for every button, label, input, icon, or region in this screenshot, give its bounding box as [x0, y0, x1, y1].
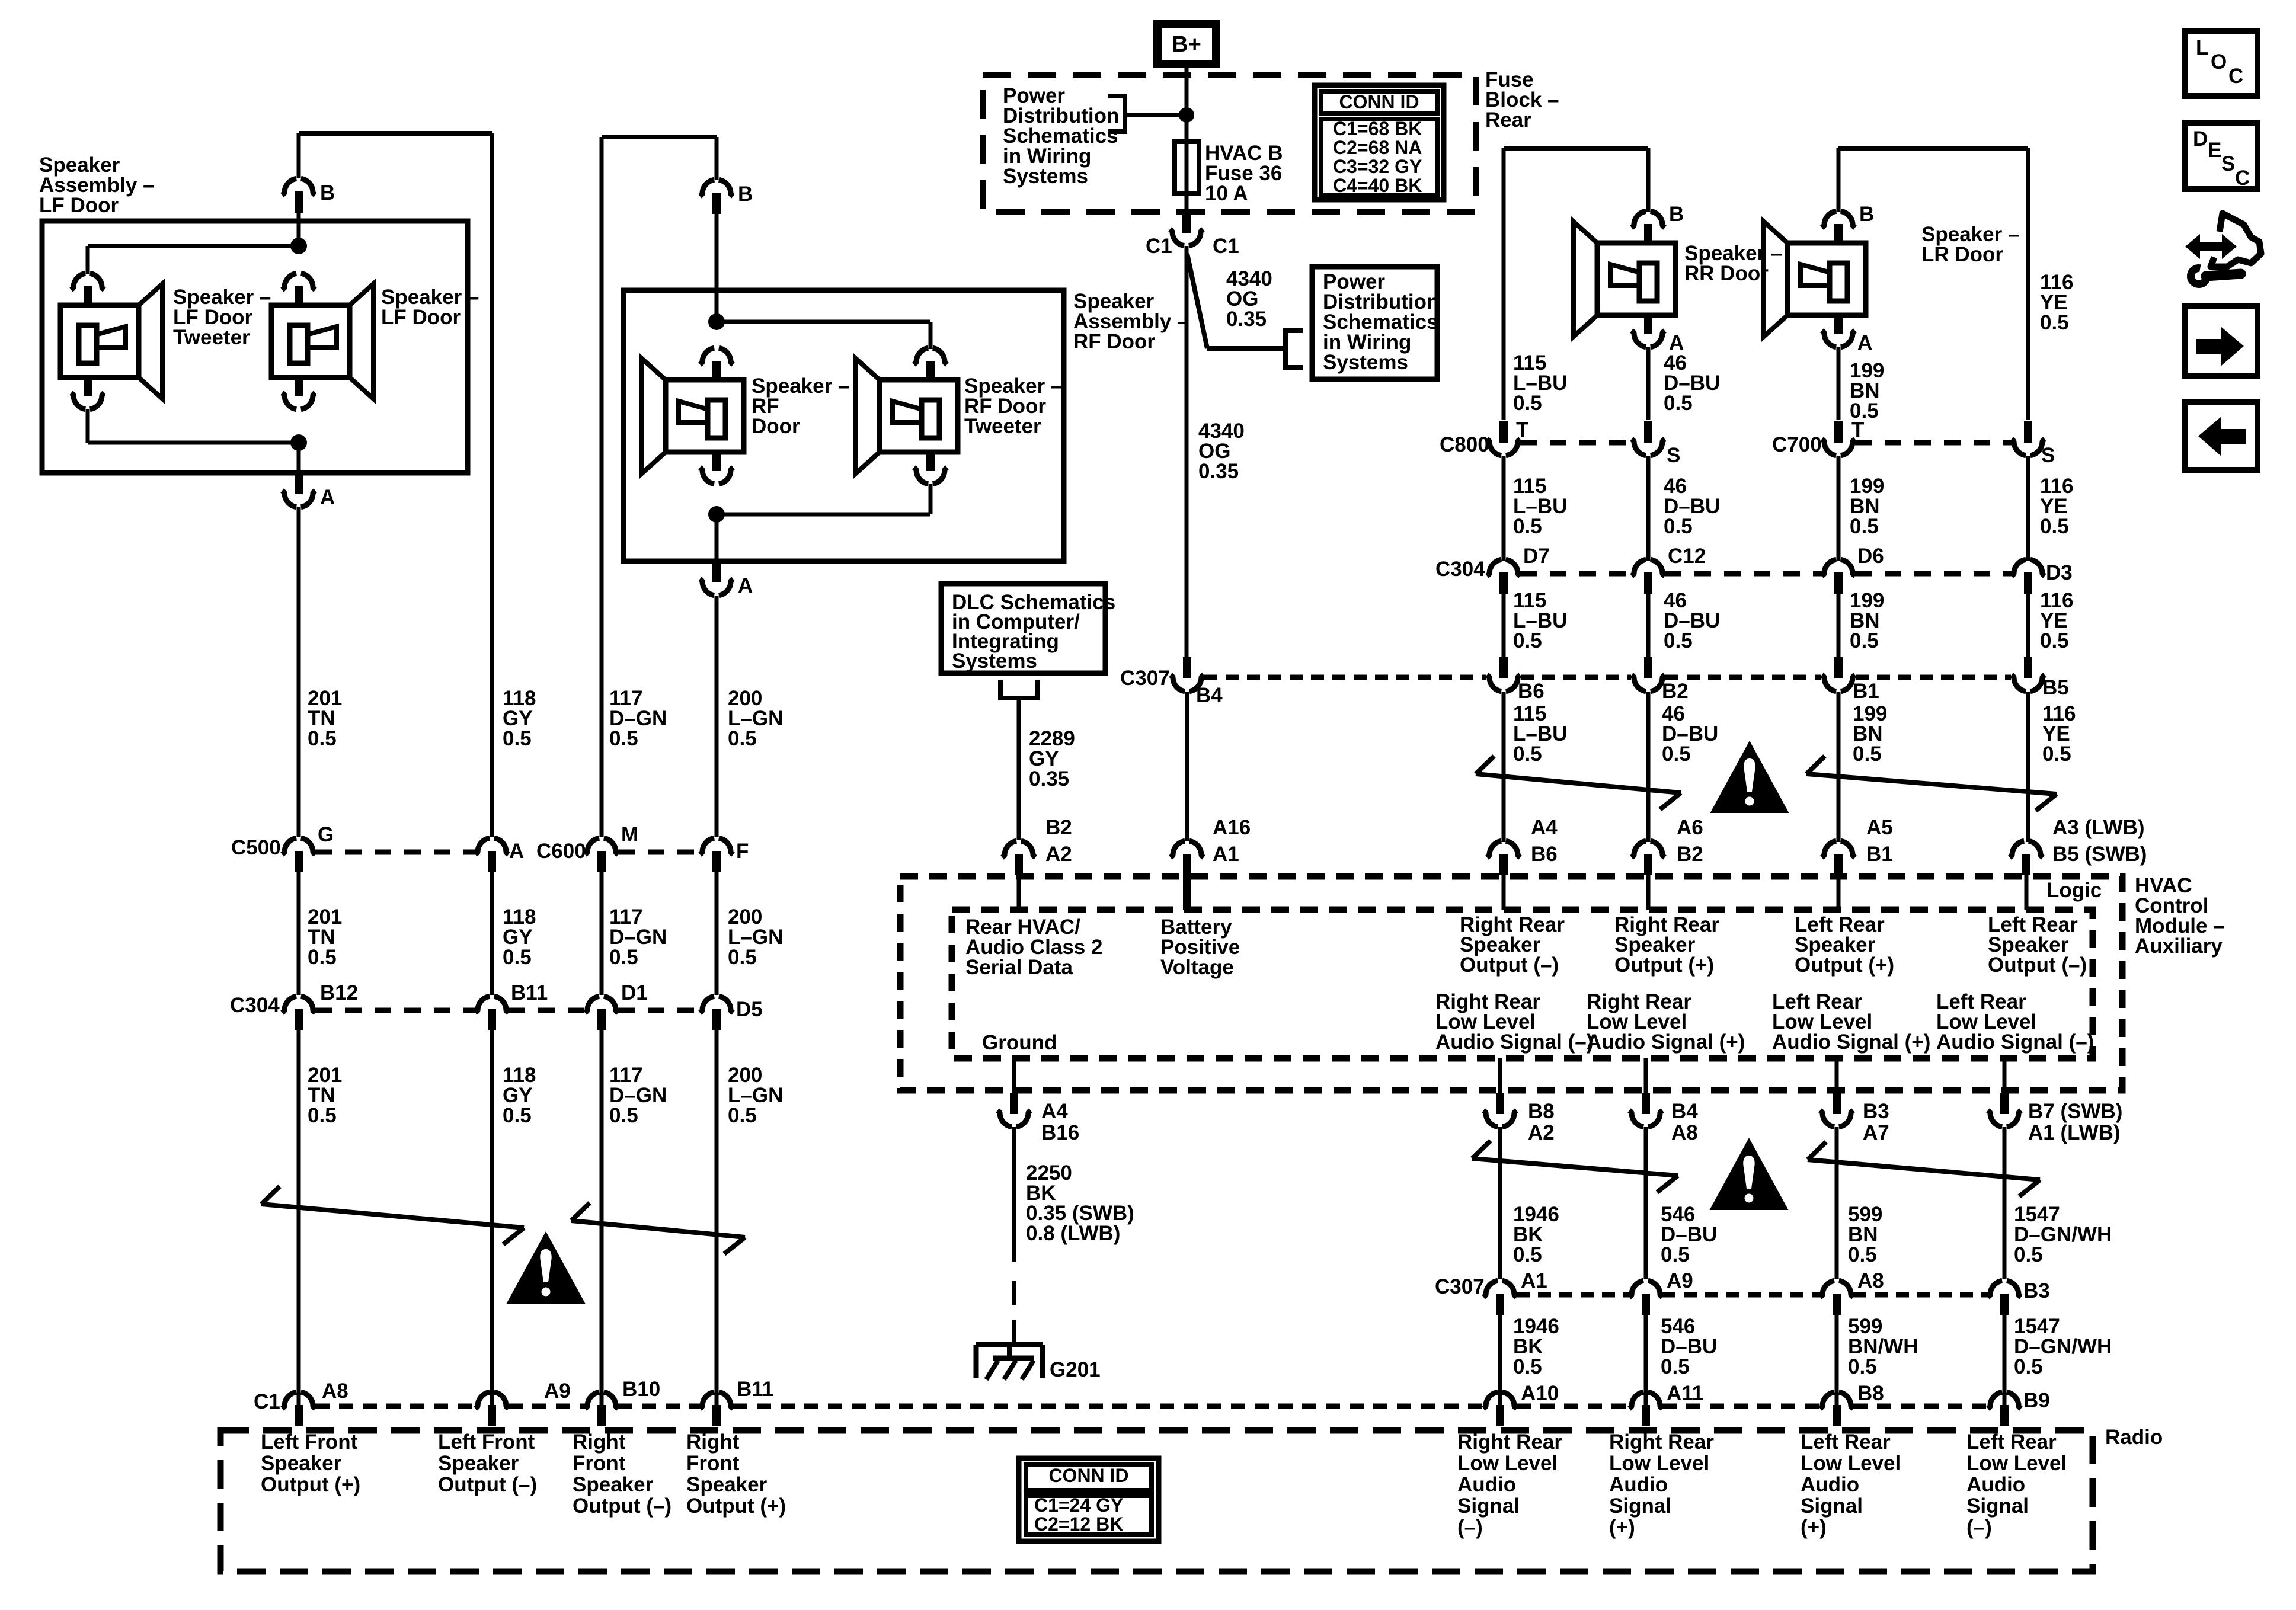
svg-text:Systems: Systems — [1003, 165, 1088, 188]
wire 116 YE segment 3 — [2026, 594, 2030, 657]
warning triangle left — [507, 1231, 586, 1304]
connector B3/A7 out — [1835, 1058, 1839, 1094]
svg-text:Logic: Logic — [2046, 879, 2102, 902]
wire ground dashed segments — [1012, 1281, 1016, 1305]
svg-text:CONN ID: CONN ID — [1048, 1465, 1128, 1486]
svg-text:C600: C600 — [536, 840, 586, 863]
svg-text:A2: A2 — [1045, 843, 1072, 866]
wire 199 BN segment 1 — [1837, 347, 1841, 420]
wire 1547 D-GN/WH segment 2 — [2003, 1315, 2007, 1405]
speaker assembly box - RF Door — [623, 290, 1064, 561]
svg-text:G201: G201 — [1050, 1358, 1101, 1381]
svg-text:B3: B3 — [1863, 1100, 1889, 1123]
svg-text:0.5: 0.5 — [1662, 742, 1691, 766]
svg-text:B2: B2 — [1045, 816, 1072, 839]
svg-text:A11: A11 — [1667, 1382, 1703, 1405]
svg-text:(+): (+) — [1609, 1516, 1635, 1539]
svg-text:A8: A8 — [1671, 1121, 1698, 1144]
wire 46 D-BU segment 4 — [1646, 692, 1651, 842]
connector B4/A8 out — [1644, 1058, 1648, 1094]
svg-text:C800: C800 — [1440, 433, 1489, 456]
svg-text:T: T — [1516, 418, 1528, 441]
connector B (RR speaker) — [1632, 211, 1646, 228]
svg-text:Signal: Signal — [1966, 1494, 2029, 1518]
wire 546 D-BU segment 1 — [1644, 1127, 1648, 1279]
svg-text:0.5: 0.5 — [1513, 742, 1542, 766]
svg-text:0.5: 0.5 — [308, 727, 337, 750]
svg-text:B: B — [1859, 203, 1874, 226]
wire 201 TN segment 2 — [297, 872, 301, 995]
svg-text:Output (–): Output (–) — [438, 1473, 537, 1496]
svg-text:B11: B11 — [737, 1378, 773, 1401]
svg-text:0.5: 0.5 — [308, 946, 337, 969]
svg-text:A4: A4 — [1041, 1100, 1068, 1123]
svg-text:0.5: 0.5 — [1850, 515, 1879, 538]
svg-text:C307: C307 — [1435, 1275, 1485, 1298]
svg-text:0.5: 0.5 — [1513, 1243, 1542, 1266]
svg-text:B4: B4 — [1196, 684, 1223, 707]
fuse HVAC B Fuse 36 10A — [1175, 142, 1199, 194]
svg-text:S: S — [1667, 444, 1680, 467]
wire 200 L-GN segment 1 — [715, 596, 719, 837]
svg-text:A: A — [509, 840, 524, 863]
svg-text:Left Front: Left Front — [261, 1430, 358, 1454]
svg-text:B6: B6 — [1531, 843, 1558, 866]
svg-text:B+: B+ — [1172, 32, 1201, 57]
svg-text:0.5: 0.5 — [503, 1104, 532, 1127]
svg-text:Signal: Signal — [1457, 1494, 1520, 1518]
wire 1946 BK segment 2 — [1498, 1315, 1502, 1405]
wire RR top jumper — [1504, 146, 1648, 151]
speaker assembly box - LF Door — [42, 221, 468, 473]
svg-text:A: A — [1857, 331, 1872, 354]
wire 46 D-BU segment 3 — [1646, 594, 1651, 657]
svg-text:Right: Right — [573, 1430, 626, 1454]
svg-text:0.35: 0.35 — [1226, 308, 1267, 331]
svg-text:(–): (–) — [1457, 1516, 1483, 1539]
svg-text:Low Level: Low Level — [1801, 1452, 1901, 1475]
conn id table (fuse block) — [1315, 85, 1444, 200]
svg-text:0.5: 0.5 — [1513, 392, 1542, 415]
DESC reference box — [2185, 123, 2257, 189]
connector B7/A1 out — [2003, 1058, 2007, 1094]
connector A (LF assembly) — [282, 491, 296, 507]
svg-text:B: B — [1669, 203, 1684, 226]
bracket below DLC box — [1000, 680, 1037, 698]
svg-text:RF Door: RF Door — [1073, 330, 1155, 353]
svg-text:Audio Signal (+): Audio Signal (+) — [1587, 1030, 1745, 1054]
power feed B+ box — [1153, 20, 1220, 68]
svg-text:0.5: 0.5 — [2014, 1355, 2043, 1378]
svg-text:B4: B4 — [1671, 1100, 1698, 1123]
wire 117 D-GN segment 2 — [600, 872, 604, 995]
wire 118 GY segment 3 — [490, 1030, 494, 1405]
svg-text:Speaker: Speaker — [438, 1452, 519, 1475]
conn id table (radio) — [1019, 1458, 1159, 1541]
svg-text:C700: C700 — [1772, 433, 1822, 456]
svg-text:C1: C1 — [1213, 235, 1239, 258]
speaker LF Door (main) — [282, 273, 296, 290]
svg-text:LF Door: LF Door — [381, 306, 461, 329]
label 118 GY segment 1 — [490, 133, 494, 837]
power distribution schematics box — [1312, 267, 1437, 379]
svg-text:0.5: 0.5 — [1848, 1355, 1877, 1378]
connector B (RF assembly) — [700, 180, 714, 196]
wire 115 L-BU segment 4 — [1502, 692, 1506, 842]
svg-text:CONN ID: CONN ID — [1339, 91, 1419, 113]
svg-text:A9: A9 — [544, 1379, 571, 1403]
ground symbol G201 — [976, 1342, 1043, 1347]
svg-text:0.5: 0.5 — [1664, 629, 1693, 652]
wire 201 TN segment 1 — [297, 507, 301, 837]
svg-text:A1 (LWB): A1 (LWB) — [2028, 1121, 2121, 1144]
svg-text:Serial Data: Serial Data — [965, 956, 1073, 979]
wire branch to power distribution (diagonal) — [1187, 254, 1207, 348]
wire B to junction — [297, 213, 301, 249]
svg-text:B: B — [320, 181, 335, 204]
svg-text:C500: C500 — [231, 836, 281, 859]
wire RF tweeter bottom branch — [929, 484, 933, 514]
node junction RF top — [708, 313, 725, 330]
svg-text:E: E — [2208, 139, 2221, 162]
svg-text:Audio Signal (+): Audio Signal (+) — [1772, 1030, 1930, 1054]
svg-text:LR Door: LR Door — [1921, 243, 2003, 266]
interrupt break symbol lower RR wires — [1472, 1158, 1678, 1176]
wire junction to bracket — [1125, 113, 1187, 117]
LOC reference box — [2185, 31, 2257, 96]
connector B (LR speaker) — [1822, 211, 1836, 228]
svg-text:B11: B11 — [511, 981, 548, 1004]
svg-text:Output (+): Output (+) — [261, 1473, 360, 1496]
wire B to junction RF — [715, 214, 719, 325]
svg-text:Signal: Signal — [1609, 1494, 1671, 1518]
svg-text:Signal: Signal — [1801, 1494, 1863, 1518]
svg-text:0.5: 0.5 — [728, 1104, 757, 1127]
svg-text:B8: B8 — [1528, 1100, 1555, 1123]
svg-text:0.5: 0.5 — [503, 946, 532, 969]
warning triangle lower — [1710, 1138, 1789, 1210]
svg-text:A8: A8 — [1857, 1269, 1884, 1292]
svg-text:Audio: Audio — [1966, 1473, 2025, 1496]
svg-text:Tweeter: Tweeter — [173, 326, 250, 349]
svg-text:Speaker: Speaker — [686, 1473, 768, 1496]
svg-text:A5: A5 — [1866, 816, 1893, 839]
svg-text:0.5: 0.5 — [1664, 392, 1693, 415]
svg-text:0.5: 0.5 — [2040, 515, 2069, 538]
svg-text:A16: A16 — [1213, 816, 1251, 839]
svg-text:C304: C304 — [1435, 558, 1485, 581]
svg-text:Right Rear: Right Rear — [1457, 1430, 1562, 1454]
wire 546 D-BU segment 2 — [1644, 1315, 1648, 1405]
svg-text:0.35: 0.35 — [1198, 460, 1239, 483]
svg-text:Systems: Systems — [1323, 351, 1408, 374]
interrupt break symbol lower LR wires — [1808, 1160, 2040, 1180]
wire 116 YE segment 4 — [2026, 692, 2030, 842]
svg-text:0.5: 0.5 — [2042, 742, 2071, 766]
svg-text:0.5: 0.5 — [1853, 742, 1882, 766]
node junction LF top — [290, 238, 307, 254]
svg-text:C1=24 GY: C1=24 GY — [1034, 1494, 1123, 1516]
connector A5/B1 into HVAC — [1822, 841, 1836, 857]
forward arrow box — [2185, 306, 2257, 376]
svg-text:Left Rear: Left Rear — [1966, 1430, 2057, 1454]
svg-text:Output (–): Output (–) — [1988, 953, 2087, 977]
svg-text:F: F — [736, 840, 749, 863]
svg-text:Audio Signal (–): Audio Signal (–) — [1435, 1030, 1593, 1054]
svg-text:Output (–): Output (–) — [573, 1494, 671, 1518]
node junction B+ branch — [1179, 107, 1194, 123]
wire 599 BN segment 1 — [1835, 1127, 1839, 1279]
svg-text:Front: Front — [686, 1452, 740, 1475]
svg-text:C1: C1 — [1146, 235, 1172, 258]
wire 199 BN segment 3 — [1837, 594, 1841, 657]
svg-text:0.5: 0.5 — [1848, 1243, 1877, 1266]
svg-text:Voltage: Voltage — [1160, 956, 1234, 979]
svg-text:B1: B1 — [1853, 680, 1879, 703]
svg-text:T: T — [1851, 418, 1864, 441]
wire battery positive 4340 OG — [1185, 246, 1189, 658]
svg-text:0.5: 0.5 — [1661, 1355, 1690, 1378]
svg-text:C: C — [2235, 167, 2250, 190]
svg-text:C12: C12 — [1668, 545, 1706, 568]
wire 117 D-GN segment 3 — [600, 1030, 604, 1405]
connector A4/B16 ground out — [1012, 1058, 1016, 1094]
svg-text:0.5: 0.5 — [503, 727, 532, 750]
wire 199 BN segment 4 — [1837, 692, 1841, 842]
svg-text:B7 (SWB): B7 (SWB) — [2028, 1100, 2122, 1123]
svg-text:Speaker: Speaker — [261, 1452, 342, 1475]
svg-text:C304: C304 — [230, 994, 280, 1017]
svg-text:B10: B10 — [622, 1378, 660, 1401]
svg-text:A6: A6 — [1677, 816, 1703, 839]
warning triangle right upper — [1710, 741, 1789, 813]
bracket to power distribution schematics — [1108, 96, 1125, 132]
svg-text:Low Level: Low Level — [1457, 1452, 1558, 1475]
connector B (LF assembly) — [282, 178, 296, 195]
svg-text:A4: A4 — [1531, 816, 1558, 839]
svg-text:A8: A8 — [322, 1379, 348, 1403]
svg-text:C307: C307 — [1120, 667, 1170, 690]
svg-text:0.5: 0.5 — [728, 727, 757, 750]
svg-text:0.35: 0.35 — [1029, 767, 1069, 790]
svg-text:B3: B3 — [2023, 1279, 2050, 1302]
wire tweeter top branch — [88, 244, 299, 248]
connector A3/B5 into HVAC — [2010, 841, 2024, 857]
node junction LF bottom — [290, 434, 307, 451]
svg-text:Audio: Audio — [1801, 1473, 1859, 1496]
svg-text:B1: B1 — [1866, 843, 1893, 866]
svg-text:A: A — [738, 574, 753, 597]
svg-text:B12: B12 — [320, 981, 358, 1004]
dotted line C307 row — [1204, 675, 1486, 680]
svg-text:Low Level: Low Level — [1609, 1452, 1709, 1475]
interrupt break symbol right wires LR — [1806, 774, 2057, 794]
jump icon outline — [2211, 213, 2261, 267]
svg-text:0.5: 0.5 — [609, 946, 638, 969]
svg-text:0.5: 0.5 — [609, 727, 638, 750]
wire to RF box bottom — [715, 514, 719, 561]
svg-text:0.5: 0.5 — [1513, 629, 1542, 652]
wire RF top jumper — [602, 135, 717, 139]
wire 199 BN segment 2 — [1837, 456, 1841, 561]
back arrow box — [2185, 402, 2257, 470]
wire 200 L-GN segment 3 — [715, 1030, 719, 1405]
svg-text:B9: B9 — [2023, 1389, 2050, 1412]
svg-text:0.8 (LWB): 0.8 (LWB) — [1026, 1222, 1120, 1245]
HVAC control module outer dashed box — [900, 876, 2122, 1090]
svg-text:O: O — [2211, 50, 2227, 73]
svg-text:M: M — [621, 823, 638, 846]
fuse block rear dashed box — [983, 75, 1476, 212]
svg-text:0.5: 0.5 — [1850, 629, 1879, 652]
svg-text:Radio: Radio — [2105, 1426, 2163, 1449]
wire RF tweeter top branch — [717, 320, 930, 324]
svg-text:Left Rear: Left Rear — [1801, 1430, 1891, 1454]
svg-text:C2=12 BK: C2=12 BK — [1034, 1513, 1123, 1535]
svg-text:C: C — [2228, 65, 2243, 88]
connector B2/A2 into HVAC — [1002, 841, 1016, 857]
svg-text:10 A: 10 A — [1205, 182, 1248, 205]
wire 1946 BK segment 1 — [1498, 1127, 1502, 1279]
svg-text:Audio Signal (–): Audio Signal (–) — [1936, 1030, 2094, 1054]
wire 599 BN/WH segment 2 — [1835, 1315, 1839, 1405]
connector C307 B4 — [1171, 675, 1185, 692]
svg-text:Left Front: Left Front — [438, 1430, 535, 1454]
bracket to power distribution box — [1285, 331, 1303, 367]
interrupt break symbol right wires RR — [1476, 774, 1681, 793]
svg-text:A1: A1 — [1213, 843, 1239, 866]
wire LR top jumper — [1838, 146, 2028, 151]
svg-text:B6: B6 — [1518, 680, 1544, 703]
wire 1547 D-GN/WH segment 1 — [2003, 1127, 2007, 1279]
svg-text:0.5: 0.5 — [609, 1104, 638, 1127]
wire B+ to fuse — [1185, 68, 1189, 143]
svg-text:D5: D5 — [736, 998, 763, 1021]
svg-text:0.5: 0.5 — [2014, 1243, 2043, 1266]
interrupt break symbol left wires 1-2 — [261, 1204, 524, 1228]
svg-text:LF Door: LF Door — [39, 194, 119, 217]
svg-text:(–): (–) — [1966, 1516, 1992, 1539]
svg-text:A1: A1 — [1521, 1269, 1547, 1292]
jump icon wrench — [2191, 268, 2207, 284]
svg-text:Right Rear: Right Rear — [1609, 1430, 1714, 1454]
svg-text:A7: A7 — [1863, 1121, 1889, 1144]
svg-text:D3: D3 — [2046, 561, 2073, 584]
connector A4/B6 into HVAC — [1487, 841, 1501, 857]
speaker RR Door — [1632, 211, 1646, 228]
wire ground 2250 BK — [1012, 1127, 1016, 1262]
svg-text:D: D — [2193, 127, 2208, 151]
svg-text:Ground: Ground — [982, 1031, 1057, 1054]
svg-text:Audio: Audio — [1609, 1473, 1668, 1496]
svg-text:A: A — [320, 486, 335, 509]
svg-text:L: L — [2196, 36, 2208, 59]
wire 46 D-BU segment 1 — [1646, 347, 1651, 420]
wire battery to HVAC module — [1185, 692, 1189, 841]
svg-text:B2: B2 — [1662, 680, 1689, 703]
svg-text:S: S — [2041, 444, 2055, 467]
svg-text:A2: A2 — [1528, 1121, 1555, 1144]
svg-text:(+): (+) — [1801, 1516, 1827, 1539]
svg-text:C3=32 GY: C3=32 GY — [1333, 156, 1422, 177]
wire to box bottom — [297, 443, 301, 473]
svg-text:A3 (LWB): A3 (LWB) — [2052, 816, 2145, 839]
svg-text:C2=68 NA: C2=68 NA — [1333, 137, 1422, 158]
svg-text:Door: Door — [752, 415, 800, 438]
svg-text:B8: B8 — [1857, 1382, 1884, 1405]
wire tweeter bottom branch — [86, 409, 90, 443]
jump icon double arrow — [2185, 234, 2237, 259]
svg-text:Output (–): Output (–) — [1460, 953, 1559, 977]
connector C1 (fuse block) — [1170, 229, 1184, 246]
svg-text:D6: D6 — [1857, 545, 1884, 568]
svg-text:0.5: 0.5 — [2040, 311, 2069, 334]
svg-text:Output (+): Output (+) — [1795, 953, 1894, 977]
speaker RF Door (main) — [700, 348, 714, 364]
HVAC control module inner dashed box (logic) — [952, 910, 2093, 1058]
svg-text:Auxiliary: Auxiliary — [2135, 934, 2223, 958]
svg-text:D7: D7 — [1523, 545, 1550, 568]
wire 116 YE segment 2 — [2026, 456, 2030, 561]
wire LF top jumper — [299, 131, 492, 136]
connector B8/A2 out — [1498, 1058, 1502, 1094]
interrupt break symbol left wires 3-4 — [571, 1221, 745, 1237]
svg-text:A10: A10 — [1521, 1382, 1559, 1405]
connector A6/B2 into HVAC — [1632, 841, 1646, 857]
node junction RF bottom — [708, 506, 725, 523]
svg-text:0.5: 0.5 — [2040, 629, 2069, 652]
svg-text:0.5: 0.5 — [1513, 515, 1542, 538]
svg-text:0.5: 0.5 — [1513, 1355, 1542, 1378]
svg-text:C1=68 BK: C1=68 BK — [1333, 118, 1422, 139]
svg-text:S: S — [2221, 152, 2235, 175]
svg-text:Audio: Audio — [1457, 1473, 1516, 1496]
wire 46 D-BU segment 2 — [1646, 456, 1651, 561]
svg-text:B: B — [738, 183, 753, 206]
svg-text:B5 (SWB): B5 (SWB) — [2052, 843, 2147, 866]
svg-text:Output (+): Output (+) — [1614, 953, 1714, 977]
speaker RF Door Tweeter — [914, 348, 928, 364]
speaker LR Door — [1822, 211, 1836, 228]
svg-text:0.5: 0.5 — [308, 1104, 337, 1127]
svg-text:Front: Front — [573, 1452, 626, 1475]
svg-text:Low Level: Low Level — [1966, 1452, 2067, 1475]
wire 201 TN segment 3 — [297, 1030, 301, 1405]
wire 2289 GY — [1017, 698, 1021, 840]
svg-text:C1: C1 — [254, 1390, 280, 1413]
svg-text:Right: Right — [686, 1430, 740, 1454]
svg-text:Speaker: Speaker — [573, 1473, 654, 1496]
DLC schematics box — [941, 584, 1105, 673]
wire 115 L-BU segment 3 — [1502, 594, 1506, 657]
svg-text:B5: B5 — [2042, 676, 2069, 699]
connector A (RF assembly) — [700, 579, 714, 596]
svg-text:Output (+): Output (+) — [686, 1494, 786, 1518]
svg-text:B2: B2 — [1677, 843, 1703, 866]
connector row C600 — [585, 838, 599, 854]
radio dashed box — [220, 1430, 2093, 1571]
svg-text:A9: A9 — [1667, 1269, 1693, 1292]
svg-text:RR Door: RR Door — [1684, 262, 1769, 285]
speaker LF Door Tweeter — [71, 273, 85, 290]
svg-text:0.5: 0.5 — [1661, 1243, 1690, 1266]
wire 200 L-GN segment 2 — [715, 872, 719, 995]
svg-text:Tweeter: Tweeter — [964, 415, 1041, 438]
svg-text:C4=40 BK: C4=40 BK — [1333, 175, 1422, 196]
svg-text:D1: D1 — [621, 981, 648, 1004]
svg-text:Rear: Rear — [1485, 108, 1531, 132]
wire 115 L-BU segment 2 — [1502, 456, 1506, 561]
